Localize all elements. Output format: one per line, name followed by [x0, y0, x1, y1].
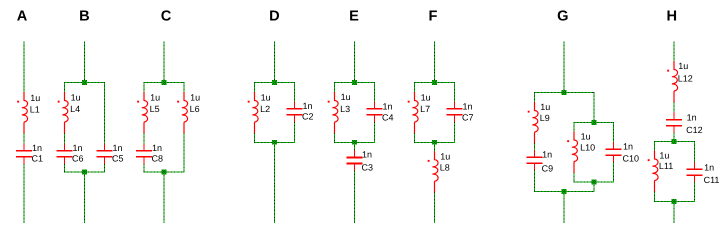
wire G right link upper	[593, 92, 595, 123]
capacitor C2 (1n)	[287, 101, 303, 122]
capacitor C4 (1n)	[367, 101, 383, 122]
wire G inner left lower	[573, 173, 575, 183]
wire D bottom	[274, 142, 276, 223]
wire B left upper	[64, 82, 66, 92]
svg-text:L6: L6	[190, 104, 200, 114]
node H top junction	[672, 139, 677, 144]
svg-text:1n: 1n	[704, 163, 714, 173]
svg-text:1n: 1n	[463, 102, 473, 112]
svg-text:1u: 1u	[261, 93, 271, 103]
svg-text:C3: C3	[362, 163, 374, 173]
node D top junction	[272, 80, 277, 85]
wire F bottom	[434, 192, 436, 223]
node G bottom junction	[562, 189, 567, 194]
node G top junction	[562, 90, 567, 95]
wire H left upper	[654, 141, 656, 151]
svg-text:1u: 1u	[150, 93, 160, 103]
wire A top	[23, 42, 25, 93]
wire D right lower	[294, 122, 296, 143]
svg-text:1n: 1n	[542, 150, 552, 160]
wire B right upper	[104, 82, 106, 144]
wire G left upper	[534, 92, 536, 102]
wire B rect bottom	[64, 171, 105, 173]
wire B top	[84, 42, 86, 83]
svg-text:1u: 1u	[190, 93, 200, 103]
wire F right lower	[454, 122, 456, 143]
svg-text:1n: 1n	[303, 101, 313, 111]
wire G outer rect top	[534, 92, 594, 94]
wire H top	[673, 42, 675, 62]
node F top junction	[432, 80, 437, 85]
wire D left lower	[254, 133, 256, 143]
wire E mid	[354, 142, 356, 151]
node B top junction	[82, 80, 87, 85]
node G inner top junction	[592, 120, 597, 125]
svg-text:L1: L1	[30, 105, 40, 115]
svg-text:C1: C1	[32, 154, 44, 164]
wire F mid	[434, 142, 436, 152]
wire D rect bottom	[254, 141, 295, 143]
wire H right upper	[694, 141, 696, 162]
inductor L5 (1u)	[137, 92, 147, 134]
svg-text:E: E	[349, 8, 359, 24]
wire G top	[563, 42, 565, 93]
node C bottom junction	[162, 170, 167, 175]
svg-text:L10: L10	[580, 143, 595, 153]
svg-text:1u: 1u	[421, 93, 431, 103]
node B bottom junction	[82, 170, 87, 175]
svg-text:1n: 1n	[362, 150, 372, 160]
svg-text:L9: L9	[540, 113, 550, 123]
wire F left lower	[414, 133, 416, 143]
wire G inner right upper	[613, 122, 615, 142]
capacitor C11 (1n)	[687, 162, 703, 183]
node E bottom junction	[352, 140, 357, 145]
wire F left upper	[414, 82, 416, 92]
capacitor C5 (1n)	[97, 143, 113, 164]
wire E top	[354, 42, 356, 83]
svg-text:C10: C10	[623, 153, 640, 163]
inductor L8 (1u)	[428, 151, 438, 193]
svg-text:L5: L5	[150, 104, 160, 114]
wire D right upper	[294, 82, 296, 102]
wire F rect top	[414, 82, 455, 84]
wire H left lower	[654, 192, 656, 202]
svg-text:1n: 1n	[687, 112, 697, 122]
wire H mid2	[673, 133, 675, 142]
wire H bottom	[673, 201, 675, 223]
wire C right lower	[183, 133, 185, 172]
wire D top	[274, 42, 276, 83]
wire H right lower	[694, 182, 696, 202]
svg-text:1n: 1n	[383, 102, 393, 112]
svg-text:C8: C8	[152, 154, 164, 164]
svg-text:C6: C6	[72, 154, 84, 164]
capacitor C12 (1n)	[666, 112, 682, 133]
svg-text:1u: 1u	[71, 93, 81, 103]
wire G bottom	[563, 191, 565, 223]
svg-text:1n: 1n	[623, 142, 633, 152]
wire B bottom	[84, 172, 86, 223]
svg-text:L7: L7	[420, 104, 430, 114]
inductor L4 (1u)	[58, 92, 68, 134]
wire E rect bottom	[334, 141, 375, 143]
svg-text:1n: 1n	[32, 143, 42, 153]
svg-text:1u: 1u	[540, 102, 550, 112]
wire E bottom	[354, 171, 356, 223]
inductor L11 (1u)	[648, 151, 658, 193]
svg-text:1u: 1u	[341, 92, 351, 102]
svg-text:L2: L2	[260, 104, 270, 114]
wire H rect top	[654, 141, 695, 143]
capacitor C9 (1n)	[527, 150, 543, 171]
capacitor C10 (1n)	[606, 142, 622, 163]
inductor L9 (1u)	[528, 102, 538, 144]
wire E left upper	[334, 82, 336, 92]
svg-text:L4: L4	[70, 104, 80, 114]
svg-text:C12: C12	[686, 125, 703, 135]
inductor L1 (1u)	[17, 92, 27, 134]
wire E left lower	[334, 133, 336, 143]
svg-text:1n: 1n	[113, 143, 123, 153]
wire D left upper	[254, 82, 256, 92]
capacitor C6 (1n)	[57, 143, 73, 164]
wire C left upper	[143, 82, 145, 92]
wire C rect bottom	[144, 171, 185, 173]
capacitor C1 (1n)	[16, 143, 32, 164]
svg-text:B: B	[79, 8, 90, 24]
svg-text:L8: L8	[440, 163, 450, 173]
node G inner bottom junction	[592, 180, 597, 185]
capacitor C7 (1n)	[447, 101, 463, 122]
svg-text:1n: 1n	[73, 143, 83, 153]
svg-text:C9: C9	[542, 164, 554, 174]
wire A mid	[23, 133, 25, 144]
wire C rect top	[144, 82, 185, 84]
svg-text:C2: C2	[302, 112, 314, 122]
svg-text:F: F	[429, 8, 438, 24]
inductor L2 (1u)	[248, 92, 258, 134]
wire G inner left upper	[573, 122, 575, 132]
wire B left lower	[64, 164, 66, 173]
svg-text:1u: 1u	[581, 131, 591, 141]
wire F rect bottom	[414, 141, 455, 143]
node E top junction	[352, 80, 357, 85]
svg-text:C: C	[161, 8, 172, 24]
svg-text:1u: 1u	[30, 93, 40, 103]
wire F top	[434, 42, 436, 83]
svg-text:1u: 1u	[678, 61, 688, 71]
wire C right upper	[183, 82, 185, 92]
node C top junction	[162, 80, 167, 85]
wire G left mid	[534, 143, 536, 150]
wire E right upper	[374, 82, 376, 102]
inductor L3 (1u)	[328, 92, 338, 134]
wire G left lower	[534, 170, 536, 192]
wire C left lower	[143, 164, 145, 173]
wire B right lower	[104, 164, 106, 173]
svg-text:L3: L3	[340, 104, 350, 114]
wire H mid1	[673, 102, 675, 113]
svg-text:C5: C5	[112, 154, 124, 164]
svg-text:1u: 1u	[440, 151, 450, 161]
wire G inner right lower	[613, 162, 615, 182]
node D bottom junction	[272, 140, 277, 145]
svg-text:1n: 1n	[152, 143, 162, 153]
wire F right upper	[454, 82, 456, 102]
svg-text:C7: C7	[462, 113, 474, 123]
wire G inner rect top	[574, 122, 614, 124]
wire B rect top	[64, 82, 105, 84]
wire H rect bottom	[654, 201, 695, 203]
inductor L10 (1u)	[567, 132, 577, 174]
capacitor C8 (1n)	[136, 143, 152, 164]
wire G right link lower	[593, 182, 595, 192]
svg-text:H: H	[667, 8, 678, 24]
capacitor C3 (1n)	[347, 150, 363, 171]
svg-text:A: A	[17, 8, 28, 24]
svg-text:C11: C11	[704, 175, 720, 185]
wire C top	[163, 42, 165, 83]
inductor L12 (1u)	[667, 61, 677, 103]
wire B left mid	[64, 133, 66, 144]
wire C left mid	[143, 133, 145, 144]
inductor L6 (1u)	[177, 92, 187, 134]
wire G inner rect bottom	[574, 181, 614, 183]
svg-text:L11: L11	[659, 161, 673, 171]
node H bottom junction	[672, 199, 677, 204]
wire D rect top	[254, 82, 295, 84]
wire E right lower	[374, 122, 376, 143]
wire E rect top	[334, 82, 375, 84]
node F bottom junction	[432, 140, 437, 145]
svg-text:L12: L12	[678, 74, 693, 84]
svg-text:C4: C4	[382, 113, 394, 123]
inductor L7 (1u)	[408, 92, 418, 134]
svg-text:G: G	[557, 8, 568, 24]
wire G outer rect bottom	[534, 191, 594, 193]
svg-text:D: D	[269, 8, 280, 24]
svg-text:1u: 1u	[659, 151, 669, 161]
wire C bottom	[163, 172, 165, 223]
wire A bottom	[23, 164, 25, 223]
